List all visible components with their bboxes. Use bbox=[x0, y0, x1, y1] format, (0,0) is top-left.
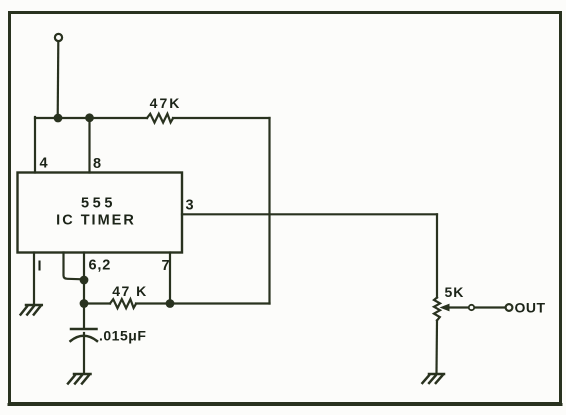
svg-text:OUT: OUT bbox=[515, 300, 546, 316]
wire pin 8 bbox=[88, 118, 90, 173]
node junction capacitor top bbox=[80, 299, 89, 308]
ground potentiometer bbox=[422, 374, 444, 383]
op-amp U1 555 IC TIMER box bbox=[18, 173, 183, 253]
wire output drop to potentiometer bbox=[436, 214, 438, 297]
capacitor C1 .015uF bbox=[71, 329, 98, 341]
ground capacitor bbox=[68, 374, 91, 384]
potentiometer wiper arrow bbox=[440, 304, 450, 312]
svg-text:.015μF: .015μF bbox=[99, 328, 146, 344]
svg-text:3: 3 bbox=[186, 198, 194, 214]
terminal OUT bbox=[506, 304, 513, 311]
node wiper tap circle bbox=[469, 305, 474, 310]
svg-text:47K: 47K bbox=[150, 95, 182, 111]
wire capacitor top lead bbox=[83, 304, 85, 329]
wire vertical feedback from rail bbox=[268, 118, 270, 304]
svg-text:6,2: 6,2 bbox=[89, 258, 112, 274]
resistor R2 47K bbox=[110, 299, 136, 308]
wire pin 6,2 vertical bbox=[83, 253, 85, 304]
potentiometer R3 5K bbox=[434, 298, 440, 321]
wire supply rail left segment bbox=[35, 117, 147, 119]
node junction pins 6,2 bbox=[80, 276, 89, 285]
svg-text:555: 555 bbox=[81, 196, 116, 212]
svg-text:5K: 5K bbox=[445, 284, 465, 300]
wire V+ to supply rail bbox=[57, 42, 60, 118]
wire pin 4 bbox=[34, 117, 36, 173]
svg-text:8: 8 bbox=[93, 156, 101, 172]
node junction pin 7 bbox=[166, 299, 175, 308]
wire timing network left segment bbox=[84, 302, 110, 304]
ground pin 1 bbox=[21, 305, 42, 315]
svg-text:I: I bbox=[38, 259, 42, 275]
node junction pin 8 bbox=[85, 113, 94, 122]
resistor R1 47K bbox=[147, 114, 173, 123]
wire capacitor bottom lead bbox=[83, 333, 85, 373]
terminal V+ bbox=[55, 34, 62, 41]
svg-text:47 K: 47 K bbox=[112, 283, 148, 299]
svg-text:IC TIMER: IC TIMER bbox=[56, 213, 136, 229]
wire wiper to output terminal bbox=[448, 306, 506, 308]
svg-text:7: 7 bbox=[162, 258, 170, 274]
wire supply rail right segment bbox=[173, 117, 270, 119]
wire timing network right segment bbox=[136, 302, 270, 304]
wire pin 3 output run bbox=[182, 213, 437, 215]
svg-text:4: 4 bbox=[40, 156, 48, 172]
node junction V+ rail bbox=[54, 114, 63, 123]
wire pin 1 bbox=[33, 253, 35, 305]
wire potentiometer bottom lead bbox=[435, 321, 438, 374]
wire pin 7 bbox=[169, 253, 171, 304]
wire pin 2 stub to node bbox=[64, 253, 83, 280]
